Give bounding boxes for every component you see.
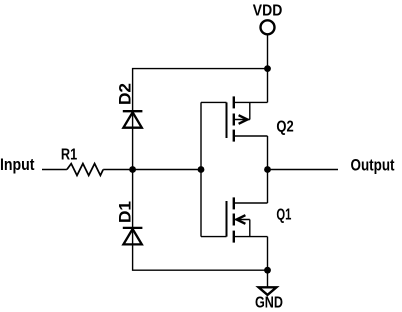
- svg-text:VDD: VDD: [253, 2, 282, 19]
- Q1 source lead: [234, 236, 268, 238]
- node: input protection junction: [129, 166, 136, 173]
- diode D1: [123, 228, 143, 245]
- Q2 channel segment bottom: [233, 130, 235, 142]
- transistor Q1: [227, 197, 268, 242]
- transistor Q2: [227, 96, 268, 141]
- svg-text:Input: Input: [0, 155, 35, 174]
- wire: output branch vertical: [267, 136, 269, 203]
- Q2 bulk arrow (points right: PMOS): [239, 115, 248, 124]
- svg-text:Output: Output: [351, 155, 395, 174]
- wire: Q1 source to ground: [267, 237, 269, 287]
- wire: gate branch vertical: [200, 102, 202, 236]
- wire: Q1 gate lead: [201, 236, 227, 238]
- power terminal VDD: [261, 20, 275, 34]
- svg-text:Q1: Q1: [276, 206, 291, 223]
- node: VDD rail junction: [264, 65, 271, 72]
- wire: lower-left branch to GND rail: [133, 170, 268, 271]
- Q2 channel segment top: [233, 96, 235, 108]
- ground symbol: [259, 287, 277, 295]
- Q2 drain lead: [234, 135, 268, 137]
- svg-text:D1: D1: [116, 201, 135, 223]
- Q2 channel segment middle: [233, 114, 235, 126]
- Q1 gate bar: [226, 201, 228, 237]
- wire: upper-left branch to VDD rail: [133, 69, 268, 170]
- diode D2: [123, 111, 143, 128]
- node: gate junction: [198, 166, 205, 173]
- Q2 bulk lead: [234, 119, 250, 121]
- wire: Q2 gate lead: [201, 101, 227, 103]
- node: output junction: [264, 166, 271, 173]
- Q1 channel segment middle: [233, 214, 235, 226]
- wire: R1 to gate junction: [103, 169, 201, 171]
- Q1 channel segment top: [233, 197, 235, 209]
- Q1 channel segment bottom: [233, 231, 235, 243]
- Q2 bulk-source tie: [249, 102, 251, 119]
- Q1 drain lead: [234, 202, 268, 204]
- wire: input lead: [42, 169, 67, 171]
- svg-text:GND: GND: [255, 295, 283, 312]
- Q2 gate bar: [226, 102, 228, 138]
- node: GND rail junction: [264, 267, 271, 274]
- resistor R1: [67, 164, 103, 176]
- Q1 bulk lead: [234, 219, 250, 221]
- wire: output lead: [268, 169, 339, 171]
- wire: VDD stem: [267, 35, 269, 103]
- Q2 source lead: [234, 101, 268, 103]
- svg-text:R1: R1: [61, 147, 77, 164]
- svg-text:D2: D2: [116, 83, 135, 105]
- svg-text:Q2: Q2: [276, 119, 293, 136]
- Q1 bulk-source tie: [249, 220, 251, 237]
- Q1 bulk arrow (points left: NMOS): [237, 215, 246, 224]
